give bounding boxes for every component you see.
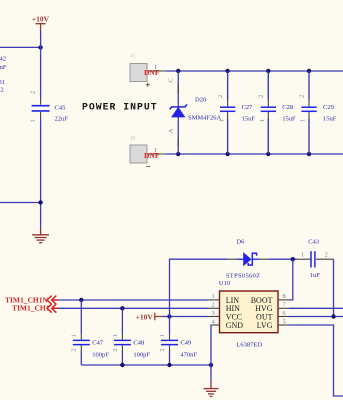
- svg-text:15uF: 15uF: [242, 116, 256, 123]
- pin 5 of U10: [278, 324, 289, 326]
- wire LVG right then down then right to edge: [289, 325, 343, 396]
- wire stubs C28: [267, 71, 269, 154]
- pin 1 of U10: [209, 299, 220, 301]
- wire OUT to right edge: [289, 316, 343, 318]
- svg-text:9nF: 9nF: [0, 64, 7, 71]
- svg-text:C45: C45: [55, 105, 66, 112]
- pin 7 of U10: [278, 307, 289, 309]
- wire: bottom rail of power input: [166, 153, 343, 155]
- power port +10V (top): [32, 15, 50, 31]
- svg-text:2: 2: [299, 95, 306, 98]
- junction top rail at C27: [225, 69, 229, 73]
- svg-text:D6: D6: [236, 238, 245, 245]
- wire C43 pin2 down to OUT junction: [333, 259, 335, 316]
- pin K of D6: [260, 258, 269, 260]
- power port +10V (at VCC): [136, 312, 162, 321]
- wire: +10V vertical rail down to ground (C45 branch): [40, 31, 42, 227]
- svg-text:2: 2: [112, 348, 119, 351]
- wire C47 branch vertical: [80, 300, 82, 365]
- junction on TIM1_CH1 wire at C48: [120, 306, 124, 310]
- junction ground rail at GND branch: [209, 363, 213, 367]
- pin 3 of U10: [209, 316, 220, 318]
- svg-text:C49: C49: [180, 340, 191, 347]
- svg-text:2: 2: [217, 95, 224, 98]
- svg-text:2: 2: [325, 252, 328, 259]
- svg-text:1: 1: [159, 334, 166, 337]
- svg-text:−: −: [146, 162, 151, 172]
- svg-text:2: 2: [71, 348, 78, 351]
- svg-text:1: 1: [218, 119, 225, 122]
- svg-text:1: 1: [212, 293, 215, 300]
- svg-text:2: 2: [258, 95, 265, 98]
- wire C49 branch vertical: [169, 317, 171, 366]
- svg-text:2: 2: [212, 302, 215, 309]
- svg-text:C29: C29: [323, 104, 334, 111]
- svg-text:1: 1: [301, 252, 304, 259]
- svg-text:C48: C48: [133, 340, 144, 347]
- junction ground rail at C48: [120, 363, 124, 367]
- svg-text:1: 1: [30, 119, 37, 122]
- capacitor C49: [161, 340, 178, 344]
- wire: horizontal from left edge to ground node: [0, 202, 41, 204]
- wire: top rail of power input: [166, 70, 343, 72]
- svg-text:15uF: 15uF: [323, 116, 337, 123]
- pin C of D20: [177, 85, 179, 94]
- junction at BOOT node: [291, 257, 295, 261]
- svg-text:C: C: [168, 78, 175, 82]
- wire D6 cathode to BOOT node: [268, 258, 296, 260]
- svg-text:8: 8: [283, 293, 286, 300]
- junction at ground node: [38, 200, 42, 204]
- svg-text:POWER INPUT: POWER INPUT: [82, 102, 158, 113]
- pin 4 of U10: [211, 324, 220, 326]
- pin 6 of U10: [278, 316, 289, 318]
- pin A of D6: [228, 258, 237, 260]
- pin 2 of U10: [209, 307, 220, 309]
- svg-text:LVG: LVG: [257, 321, 273, 330]
- junction top rail at C29: [307, 69, 311, 73]
- wire TIM1_CH1N to pin 1: [58, 299, 209, 301]
- capacitor C47 pins: [80, 334, 82, 351]
- capacitor C43: [311, 251, 315, 267]
- svg-text:TIM1_CH1: TIM1_CH1: [12, 304, 50, 313]
- junction bottom rail at C29: [307, 152, 311, 156]
- svg-text:D20: D20: [195, 97, 206, 104]
- port arrow TIM1_CH1N: [47, 296, 58, 305]
- wire GND pin 4 down to ground: [210, 325, 212, 381]
- svg-text:L6387ED: L6387ED: [236, 342, 262, 349]
- svg-text:C43: C43: [308, 239, 319, 246]
- capacitor C27: [220, 107, 235, 111]
- wire +10V to VCC node: [162, 316, 170, 318]
- wire TIM1_CH1 to pin 2: [58, 307, 209, 309]
- wire C48 branch vertical: [121, 308, 123, 365]
- junction on TIM1_CH1N wire at C47: [79, 298, 83, 302]
- capacitor C29 pins: [308, 71, 310, 154]
- wire bottom ground rail: [81, 364, 211, 366]
- TVS zener diode D20 symbol: [170, 104, 187, 117]
- svg-text:1: 1: [259, 119, 266, 122]
- capacitor C48 pins: [121, 334, 123, 351]
- capacitor C45 pins: [40, 99, 42, 118]
- junction top rail at C28: [266, 69, 270, 73]
- svg-text:1: 1: [112, 334, 119, 337]
- svg-text:3: 3: [212, 310, 215, 317]
- wire stubs C27: [227, 71, 229, 154]
- connector J5 (DNF) body: [130, 64, 147, 82]
- svg-text:DNF: DNF: [144, 68, 160, 77]
- svg-text:+: +: [145, 80, 150, 90]
- svg-text:22uF: 22uF: [55, 115, 69, 122]
- svg-text:C47: C47: [92, 340, 104, 347]
- wire stubs C29: [308, 71, 310, 154]
- svg-text:A: A: [168, 128, 175, 133]
- IC U10 body: [220, 291, 279, 333]
- svg-text:100pF: 100pF: [133, 352, 150, 359]
- junction bottom rail at C27: [225, 152, 229, 156]
- pin 1 of C43: [296, 258, 310, 260]
- svg-text:31: 31: [0, 79, 5, 86]
- pin 2 of C43: [316, 258, 334, 260]
- junction on OUT wire: [331, 314, 335, 318]
- capacitor C27 pins: [227, 71, 229, 154]
- svg-text:2: 2: [30, 91, 37, 94]
- svg-text:470nF: 470nF: [180, 352, 197, 359]
- wire VCC node to pin 3: [170, 316, 209, 318]
- svg-text:1: 1: [300, 119, 307, 122]
- svg-text:2: 2: [159, 348, 166, 351]
- wire HVG to right edge: [289, 307, 343, 309]
- svg-text:J5: J5: [131, 55, 136, 60]
- connector J6 (DNF) body: [130, 145, 147, 163]
- wire BOOT node down to pin 8: [289, 259, 293, 300]
- wire: horizontal feed into +10V node from left edge: [0, 46, 41, 48]
- schottky diode D6 symbol: [237, 253, 260, 265]
- capacitor C48: [114, 340, 131, 344]
- capacitor C45: [32, 106, 50, 111]
- capacitor C28: [261, 107, 276, 111]
- svg-text:100pF: 100pF: [92, 352, 109, 359]
- junction top rail at D20: [176, 69, 180, 73]
- svg-text:C28: C28: [282, 104, 293, 111]
- capacitor C29: [301, 107, 316, 111]
- capacitor C47: [73, 340, 90, 344]
- port arrow TIM1_CH1: [47, 304, 58, 313]
- junction bottom rail at C28: [266, 152, 270, 156]
- capacitor C28 pins: [267, 71, 269, 154]
- junction ground rail at C49: [167, 363, 171, 367]
- wire: D20 branch vertical: [177, 71, 179, 154]
- svg-text:1: 1: [71, 334, 78, 337]
- svg-text:STPS0560Z: STPS0560Z: [226, 273, 261, 280]
- svg-text:1uF: 1uF: [310, 272, 321, 279]
- svg-text:+10V: +10V: [136, 312, 154, 321]
- pin A of D20: [177, 138, 179, 147]
- svg-text:42: 42: [0, 56, 6, 63]
- svg-text:DNF: DNF: [144, 151, 160, 160]
- pin 1 of J5: [147, 70, 168, 72]
- svg-text:C27: C27: [242, 104, 254, 111]
- pin 8 of U10: [278, 299, 289, 301]
- junction at VCC node: [167, 314, 171, 318]
- svg-text:J6: J6: [131, 137, 136, 142]
- capacitor C49 pins: [169, 334, 171, 351]
- pin 1 of J6: [147, 153, 168, 155]
- svg-text:5: 5: [283, 318, 286, 325]
- ground (earth) symbol top-left: [32, 227, 49, 243]
- svg-text:GND: GND: [226, 321, 244, 330]
- svg-text:2: 2: [0, 86, 3, 93]
- svg-text:U10: U10: [219, 280, 230, 287]
- svg-text:15uF: 15uF: [282, 116, 296, 123]
- junction at +10V node: [38, 45, 42, 49]
- ground (earth) symbol bottom: [204, 381, 219, 396]
- wire: +10V vertical branch (D6 anode / C49): [170, 259, 228, 316]
- svg-text:SMM4F26A: SMM4F26A: [188, 114, 222, 121]
- junction bottom rail at D20: [176, 152, 180, 156]
- svg-text:+10V: +10V: [32, 15, 50, 24]
